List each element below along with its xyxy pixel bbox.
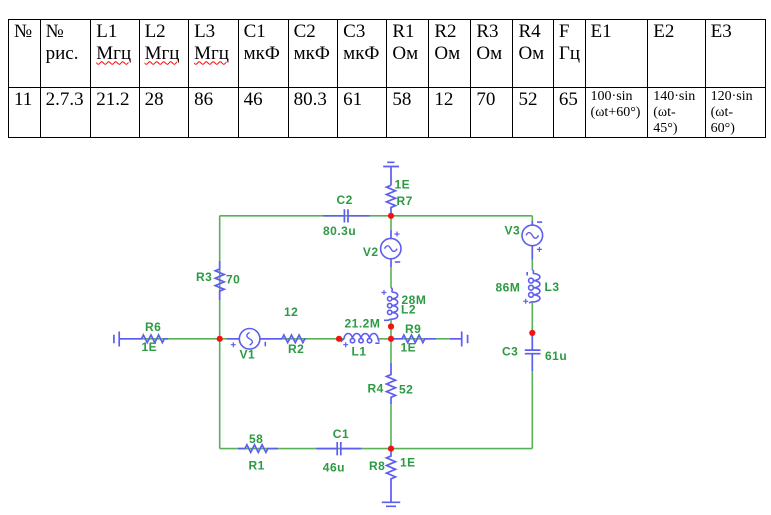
capacitor C1	[316, 442, 361, 455]
junction node middle cross	[388, 336, 394, 342]
polarity plus (L3)	[523, 299, 528, 304]
polarity plus (V3)	[537, 247, 542, 252]
inductor L2	[388, 288, 398, 321]
polarity minus (L3)	[526, 272, 528, 276]
svg-text:R1: R1	[249, 459, 265, 473]
resistor R1	[238, 445, 278, 453]
junction node L3/C3	[529, 330, 535, 336]
junction node bottom net / R8	[388, 446, 394, 452]
resistor R7	[387, 185, 396, 216]
svg-text:70: 70	[226, 273, 240, 287]
junction node at left rail / middle net	[217, 336, 223, 342]
wire left vertical rail	[219, 216, 221, 449]
wire middle horizontal net	[120, 338, 462, 340]
ac source V2	[381, 230, 401, 267]
junction node L2 bottom	[388, 323, 394, 329]
capacitor C2	[323, 209, 369, 222]
svg-text:L2: L2	[401, 303, 416, 317]
resistor R2	[282, 335, 306, 343]
polarity plus (V1)	[231, 342, 236, 347]
svg-text:L3: L3	[545, 280, 560, 294]
junction node R2/L1	[336, 336, 342, 342]
polarity minus (L2)	[384, 319, 389, 321]
svg-text:L1: L1	[352, 344, 367, 358]
terminal left	[114, 332, 119, 347]
svg-text:R3: R3	[196, 270, 212, 284]
inductor L1	[341, 333, 380, 342]
svg-text:58: 58	[249, 432, 263, 446]
svg-text:12: 12	[284, 305, 298, 319]
polarity minus (V1)	[264, 342, 266, 347]
svg-text:C3: C3	[502, 344, 518, 358]
ac source V1	[227, 329, 282, 350]
resistor R3	[215, 261, 224, 300]
capacitor C3	[525, 335, 541, 371]
svg-text:V2: V2	[363, 245, 379, 259]
svg-text:C1: C1	[333, 427, 349, 441]
polarity plus (V2)	[395, 232, 400, 237]
inductor L3	[529, 270, 540, 303]
svg-text:61u: 61u	[545, 349, 567, 363]
svg-text:R7: R7	[397, 194, 413, 208]
svg-text:V1: V1	[240, 348, 256, 362]
ground bottom (below R8)	[382, 502, 400, 506]
wire right vertical rail	[531, 216, 533, 449]
polarity plus (L1)	[343, 342, 348, 347]
svg-text:R8: R8	[369, 459, 385, 473]
svg-text:R9: R9	[405, 322, 421, 336]
wire top horizontal net	[220, 215, 533, 217]
resistor R4	[387, 363, 396, 404]
svg-text:R2: R2	[288, 342, 304, 356]
svg-text:1E: 1E	[401, 341, 417, 355]
polarity minus (L1)	[375, 342, 379, 344]
svg-text:46u: 46u	[323, 461, 345, 475]
svg-text:86M: 86M	[496, 281, 521, 295]
wire middle vertical rail	[390, 216, 392, 449]
polarity minus (V2)	[395, 261, 400, 263]
svg-text:1E: 1E	[142, 340, 158, 354]
polarity minus (V3)	[537, 221, 542, 223]
svg-text:21.2M: 21.2M	[345, 317, 381, 331]
svg-text:80.3u: 80.3u	[323, 224, 356, 238]
junction node at R7 / top net	[388, 213, 394, 219]
wire bottom horizontal net	[220, 448, 533, 450]
resistor R9	[393, 335, 436, 343]
svg-text:C2: C2	[337, 193, 353, 207]
ac source V3	[522, 221, 543, 260]
terminal right	[450, 332, 468, 347]
svg-text:R6: R6	[145, 320, 161, 334]
svg-text:1E: 1E	[395, 178, 411, 192]
resistor R8	[387, 449, 396, 502]
svg-text:V3: V3	[505, 224, 521, 238]
svg-text:1E: 1E	[400, 456, 416, 470]
svg-text:52: 52	[399, 383, 413, 397]
resistor R6	[120, 335, 169, 343]
svg-text:R4: R4	[368, 382, 384, 396]
polarity plus (L2)	[382, 290, 387, 295]
ground top (above R7)	[383, 162, 399, 185]
